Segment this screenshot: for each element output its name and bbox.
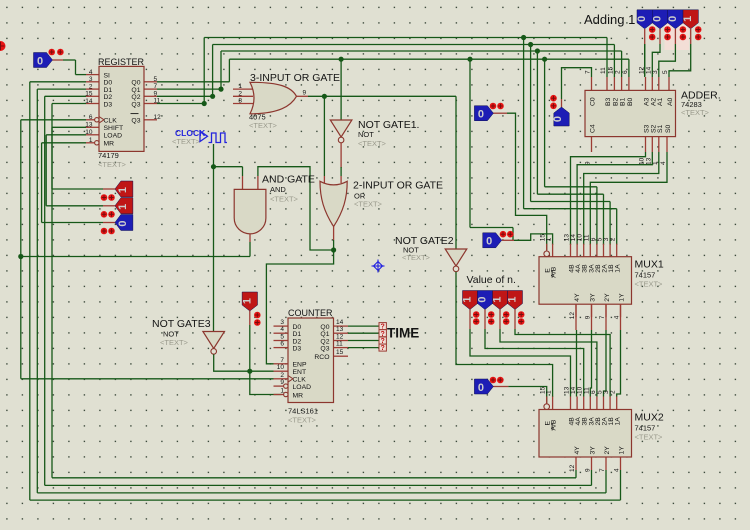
svg-text:AND GATE: AND GATE bbox=[262, 174, 315, 186]
svg-text:3: 3 bbox=[652, 70, 659, 74]
svg-text:3-INPUT OR GATE: 3-INPUT OR GATE bbox=[250, 72, 340, 84]
svg-text:Q2: Q2 bbox=[320, 338, 329, 345]
svg-text:<TEXT>: <TEXT> bbox=[270, 195, 299, 204]
svg-text:7: 7 bbox=[585, 70, 592, 74]
svg-text:B1: B1 bbox=[620, 97, 627, 106]
svg-text:4: 4 bbox=[614, 315, 621, 319]
svg-text:9: 9 bbox=[154, 90, 158, 97]
svg-text:0: 0 bbox=[552, 116, 564, 122]
svg-text:MUX2: MUX2 bbox=[635, 412, 664, 424]
svg-text:D0: D0 bbox=[293, 324, 302, 331]
svg-text:MR: MR bbox=[104, 141, 115, 148]
svg-text:NOT: NOT bbox=[358, 130, 374, 139]
svg-text:<TEXT>: <TEXT> bbox=[172, 137, 201, 146]
svg-text:A/B: A/B bbox=[551, 266, 558, 277]
svg-text:<TEXT>: <TEXT> bbox=[288, 416, 317, 425]
svg-text:ENP: ENP bbox=[293, 362, 307, 369]
svg-text:S1: S1 bbox=[657, 124, 664, 133]
svg-text:14: 14 bbox=[336, 319, 344, 326]
svg-text:74157: 74157 bbox=[635, 271, 656, 280]
svg-text:0: 0 bbox=[478, 382, 484, 394]
svg-text:7: 7 bbox=[280, 357, 284, 364]
svg-text:S0: S0 bbox=[665, 124, 672, 133]
svg-text:4Y: 4Y bbox=[574, 293, 581, 302]
svg-text:D3: D3 bbox=[104, 101, 113, 108]
svg-text:CLK: CLK bbox=[293, 377, 307, 384]
svg-text:4: 4 bbox=[614, 468, 621, 472]
svg-text:5: 5 bbox=[280, 334, 284, 341]
svg-text:3: 3 bbox=[89, 76, 93, 83]
svg-text:<TEXT>: <TEXT> bbox=[98, 160, 127, 169]
svg-text:2-INPUT OR GATE: 2-INPUT OR GATE bbox=[353, 180, 443, 192]
svg-text:1: 1 bbox=[462, 296, 474, 302]
svg-text:3Y: 3Y bbox=[590, 293, 597, 302]
svg-text:10: 10 bbox=[277, 364, 285, 371]
svg-text:4: 4 bbox=[660, 161, 667, 165]
svg-text:6: 6 bbox=[622, 70, 629, 74]
svg-text:Adding 1: Adding 1 bbox=[584, 12, 635, 27]
svg-text:LOAD: LOAD bbox=[104, 133, 123, 140]
svg-text:D2: D2 bbox=[104, 94, 113, 101]
svg-text:1: 1 bbox=[492, 296, 504, 302]
svg-text:A/B: A/B bbox=[551, 419, 558, 430]
svg-text:1: 1 bbox=[546, 237, 553, 241]
svg-text:74157: 74157 bbox=[635, 424, 656, 433]
svg-text:Q1: Q1 bbox=[320, 331, 329, 338]
svg-text:15: 15 bbox=[85, 91, 93, 98]
svg-text:D0: D0 bbox=[104, 80, 113, 87]
svg-text:1A: 1A bbox=[615, 264, 622, 273]
svg-text:12: 12 bbox=[154, 114, 162, 121]
svg-text:1Y: 1Y bbox=[619, 446, 626, 455]
svg-text:SI: SI bbox=[104, 72, 111, 79]
svg-text:2: 2 bbox=[610, 237, 617, 241]
svg-text:<TEXT>: <TEXT> bbox=[249, 121, 278, 130]
svg-text:1: 1 bbox=[682, 16, 694, 22]
svg-text:7: 7 bbox=[599, 468, 606, 472]
svg-text:6: 6 bbox=[89, 114, 93, 121]
svg-text:Q3: Q3 bbox=[320, 345, 329, 352]
svg-text:1: 1 bbox=[507, 296, 519, 302]
svg-text:5: 5 bbox=[662, 70, 669, 74]
svg-text:0: 0 bbox=[478, 109, 484, 121]
svg-text:MUX1: MUX1 bbox=[635, 259, 664, 271]
svg-text:COUNTER: COUNTER bbox=[288, 308, 333, 318]
svg-text:D3: D3 bbox=[293, 345, 302, 352]
svg-text:Q0: Q0 bbox=[320, 324, 329, 331]
svg-text:CLK: CLK bbox=[104, 118, 118, 125]
svg-text:13: 13 bbox=[85, 122, 93, 129]
svg-text:10: 10 bbox=[85, 129, 93, 136]
svg-text:1A: 1A bbox=[615, 417, 622, 426]
svg-text:7: 7 bbox=[154, 83, 158, 90]
svg-text:6: 6 bbox=[280, 341, 284, 348]
svg-text:1: 1 bbox=[238, 83, 242, 90]
svg-text:9: 9 bbox=[585, 468, 592, 472]
svg-text:<TEXT>: <TEXT> bbox=[402, 253, 431, 262]
svg-text:0: 0 bbox=[667, 16, 679, 22]
svg-text:LOAD: LOAD bbox=[293, 384, 312, 391]
svg-text:MR: MR bbox=[293, 392, 304, 399]
svg-text:Q3: Q3 bbox=[131, 118, 140, 125]
svg-text:D1: D1 bbox=[104, 87, 113, 94]
svg-text:13: 13 bbox=[336, 326, 344, 333]
svg-text:C0: C0 bbox=[590, 97, 597, 106]
svg-text:D2: D2 bbox=[293, 338, 302, 345]
svg-text:<TEXT>: <TEXT> bbox=[681, 108, 710, 117]
svg-text:4: 4 bbox=[89, 69, 93, 76]
svg-text:SHIFT: SHIFT bbox=[104, 125, 124, 132]
svg-text:0: 0 bbox=[486, 236, 492, 248]
svg-text:A1: A1 bbox=[657, 97, 664, 106]
svg-text:0: 0 bbox=[37, 55, 43, 67]
svg-text:C4: C4 bbox=[590, 124, 597, 133]
svg-text:<TEXT>: <TEXT> bbox=[358, 139, 387, 148]
svg-text:2Y: 2Y bbox=[604, 293, 611, 302]
svg-text:11: 11 bbox=[600, 67, 607, 74]
svg-text:1: 1 bbox=[117, 204, 129, 210]
svg-text:B0: B0 bbox=[627, 97, 634, 106]
svg-text:1: 1 bbox=[89, 137, 93, 144]
svg-text:2: 2 bbox=[280, 372, 284, 379]
svg-text:Q3: Q3 bbox=[131, 101, 140, 108]
svg-text:B2: B2 bbox=[612, 97, 619, 106]
svg-text:A0: A0 bbox=[667, 97, 674, 106]
svg-text:12: 12 bbox=[336, 334, 344, 341]
svg-text:0: 0 bbox=[636, 16, 648, 22]
svg-text:Q1: Q1 bbox=[131, 87, 140, 94]
svg-text:11: 11 bbox=[336, 341, 343, 348]
svg-text:2: 2 bbox=[610, 390, 617, 394]
svg-text:?: ? bbox=[381, 345, 385, 352]
svg-text:74179: 74179 bbox=[98, 151, 119, 160]
svg-text:8: 8 bbox=[238, 98, 242, 105]
svg-text:15: 15 bbox=[336, 349, 344, 356]
svg-text:REGISTER: REGISTER bbox=[98, 57, 145, 67]
svg-text:4Y: 4Y bbox=[574, 446, 581, 455]
svg-text:5: 5 bbox=[154, 76, 158, 83]
svg-text:Q0: Q0 bbox=[131, 80, 140, 87]
svg-text:2Y: 2Y bbox=[604, 446, 611, 455]
svg-text:3Y: 3Y bbox=[590, 446, 597, 455]
svg-text:RCO: RCO bbox=[314, 354, 329, 361]
svg-text:<TEXT>: <TEXT> bbox=[354, 200, 383, 209]
svg-text:2: 2 bbox=[238, 90, 242, 97]
svg-text:2: 2 bbox=[615, 70, 622, 74]
svg-text:14: 14 bbox=[85, 98, 93, 105]
svg-text:<TEXT>: <TEXT> bbox=[635, 433, 664, 442]
svg-text:0: 0 bbox=[477, 296, 489, 302]
svg-text:9: 9 bbox=[585, 315, 592, 319]
svg-text:ENT: ENT bbox=[293, 369, 307, 376]
svg-text:2: 2 bbox=[89, 84, 93, 91]
svg-text:4: 4 bbox=[280, 326, 284, 333]
svg-text:NOT GATE3: NOT GATE3 bbox=[152, 318, 211, 330]
svg-text:12: 12 bbox=[569, 312, 576, 320]
svg-text:<TEXT>: <TEXT> bbox=[635, 280, 664, 289]
svg-text:11: 11 bbox=[154, 98, 161, 105]
svg-text:74LS161: 74LS161 bbox=[288, 407, 318, 416]
svg-text:7: 7 bbox=[599, 315, 606, 319]
svg-text:B3: B3 bbox=[605, 97, 612, 106]
svg-text:1: 1 bbox=[241, 298, 253, 304]
svg-text:TIME: TIME bbox=[387, 326, 419, 341]
svg-text:0: 0 bbox=[117, 220, 129, 226]
svg-text:15: 15 bbox=[607, 66, 614, 74]
svg-text:0: 0 bbox=[652, 16, 664, 22]
svg-text:12: 12 bbox=[569, 464, 576, 472]
svg-text:Q2: Q2 bbox=[131, 94, 140, 101]
svg-text:1Y: 1Y bbox=[619, 293, 626, 302]
svg-text:AND: AND bbox=[270, 185, 286, 194]
svg-text:1: 1 bbox=[117, 187, 129, 193]
svg-text:D1: D1 bbox=[293, 331, 302, 338]
svg-text:Value of n.: Value of n. bbox=[467, 274, 516, 286]
svg-text:<TEXT>: <TEXT> bbox=[160, 338, 189, 347]
svg-text:1: 1 bbox=[546, 390, 553, 394]
svg-text:9: 9 bbox=[303, 90, 307, 97]
svg-text:3: 3 bbox=[280, 319, 284, 326]
